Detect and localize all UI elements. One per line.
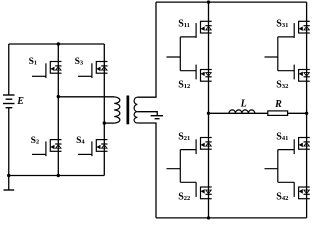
wire: converter right leg [306,2,308,218]
wire: gate bus pair S31/S32 [265,37,278,71]
node: load left [207,112,210,115]
wire: secondary top lead up to converter [137,2,156,97]
battery E wire bottom [8,108,10,190]
svg-text:R: R [274,99,282,110]
transistor S1 [32,61,62,78]
wire: converter top bus [156,1,307,3]
transformer T1 secondary winding [134,97,137,123]
wire: secondary center tap [137,112,157,115]
battery E [3,95,15,108]
node: S1/S2 midpoint [57,95,60,98]
transistor S2 [32,139,62,156]
wire: converter bottom bus [156,217,307,219]
transistor S3 [78,61,108,78]
node: bottom rail battery junction [7,174,10,177]
wire: converter left leg [208,2,210,218]
transistor S4 [78,139,108,156]
wire: left bridge bottom rail [9,175,105,177]
transistor S22 [180,182,211,199]
transistor S42 [278,182,310,199]
inductor L [229,110,255,113]
wire: gate bus pair S41/S42 [265,150,278,183]
transistor S12 [180,65,211,82]
transistor S41 [278,137,310,154]
ground (center tap) [151,116,163,119]
wire: S1/S2 node to transformer primary top [58,96,114,98]
node: S3/S4 midpoint [103,121,106,124]
node: bottom rail S2 junction [57,174,60,177]
node: top rail junction [57,42,60,45]
transistor S21 [180,137,211,154]
wire: load line [209,112,307,114]
transistor S11 [180,21,211,38]
node: bottom bus left leg [207,216,210,219]
wire: leg S3/S4 [103,44,105,176]
transformer T1 core [127,96,130,125]
wire: gate bus pair S21/S22 [167,150,181,183]
ground (battery) [4,189,15,191]
svg-text:E: E [16,96,24,107]
transistor S31 [278,21,310,38]
transformer T1 primary winding [114,97,120,123]
node: top bus left leg [207,0,210,3]
battery E wire top [8,44,10,95]
wire: secondary bottom lead down to converter [137,123,156,218]
svg-text:L: L [240,99,247,110]
resistor R [268,111,288,116]
wire: left bridge top rail [9,43,105,45]
transistor S32 [278,65,310,82]
wire: gate bus pair S11/S12 [167,37,181,71]
node: load right [305,112,308,115]
wire: leg S1/S2 [57,44,59,176]
wire: S3/S4 node to transformer primary bottom [104,122,114,124]
